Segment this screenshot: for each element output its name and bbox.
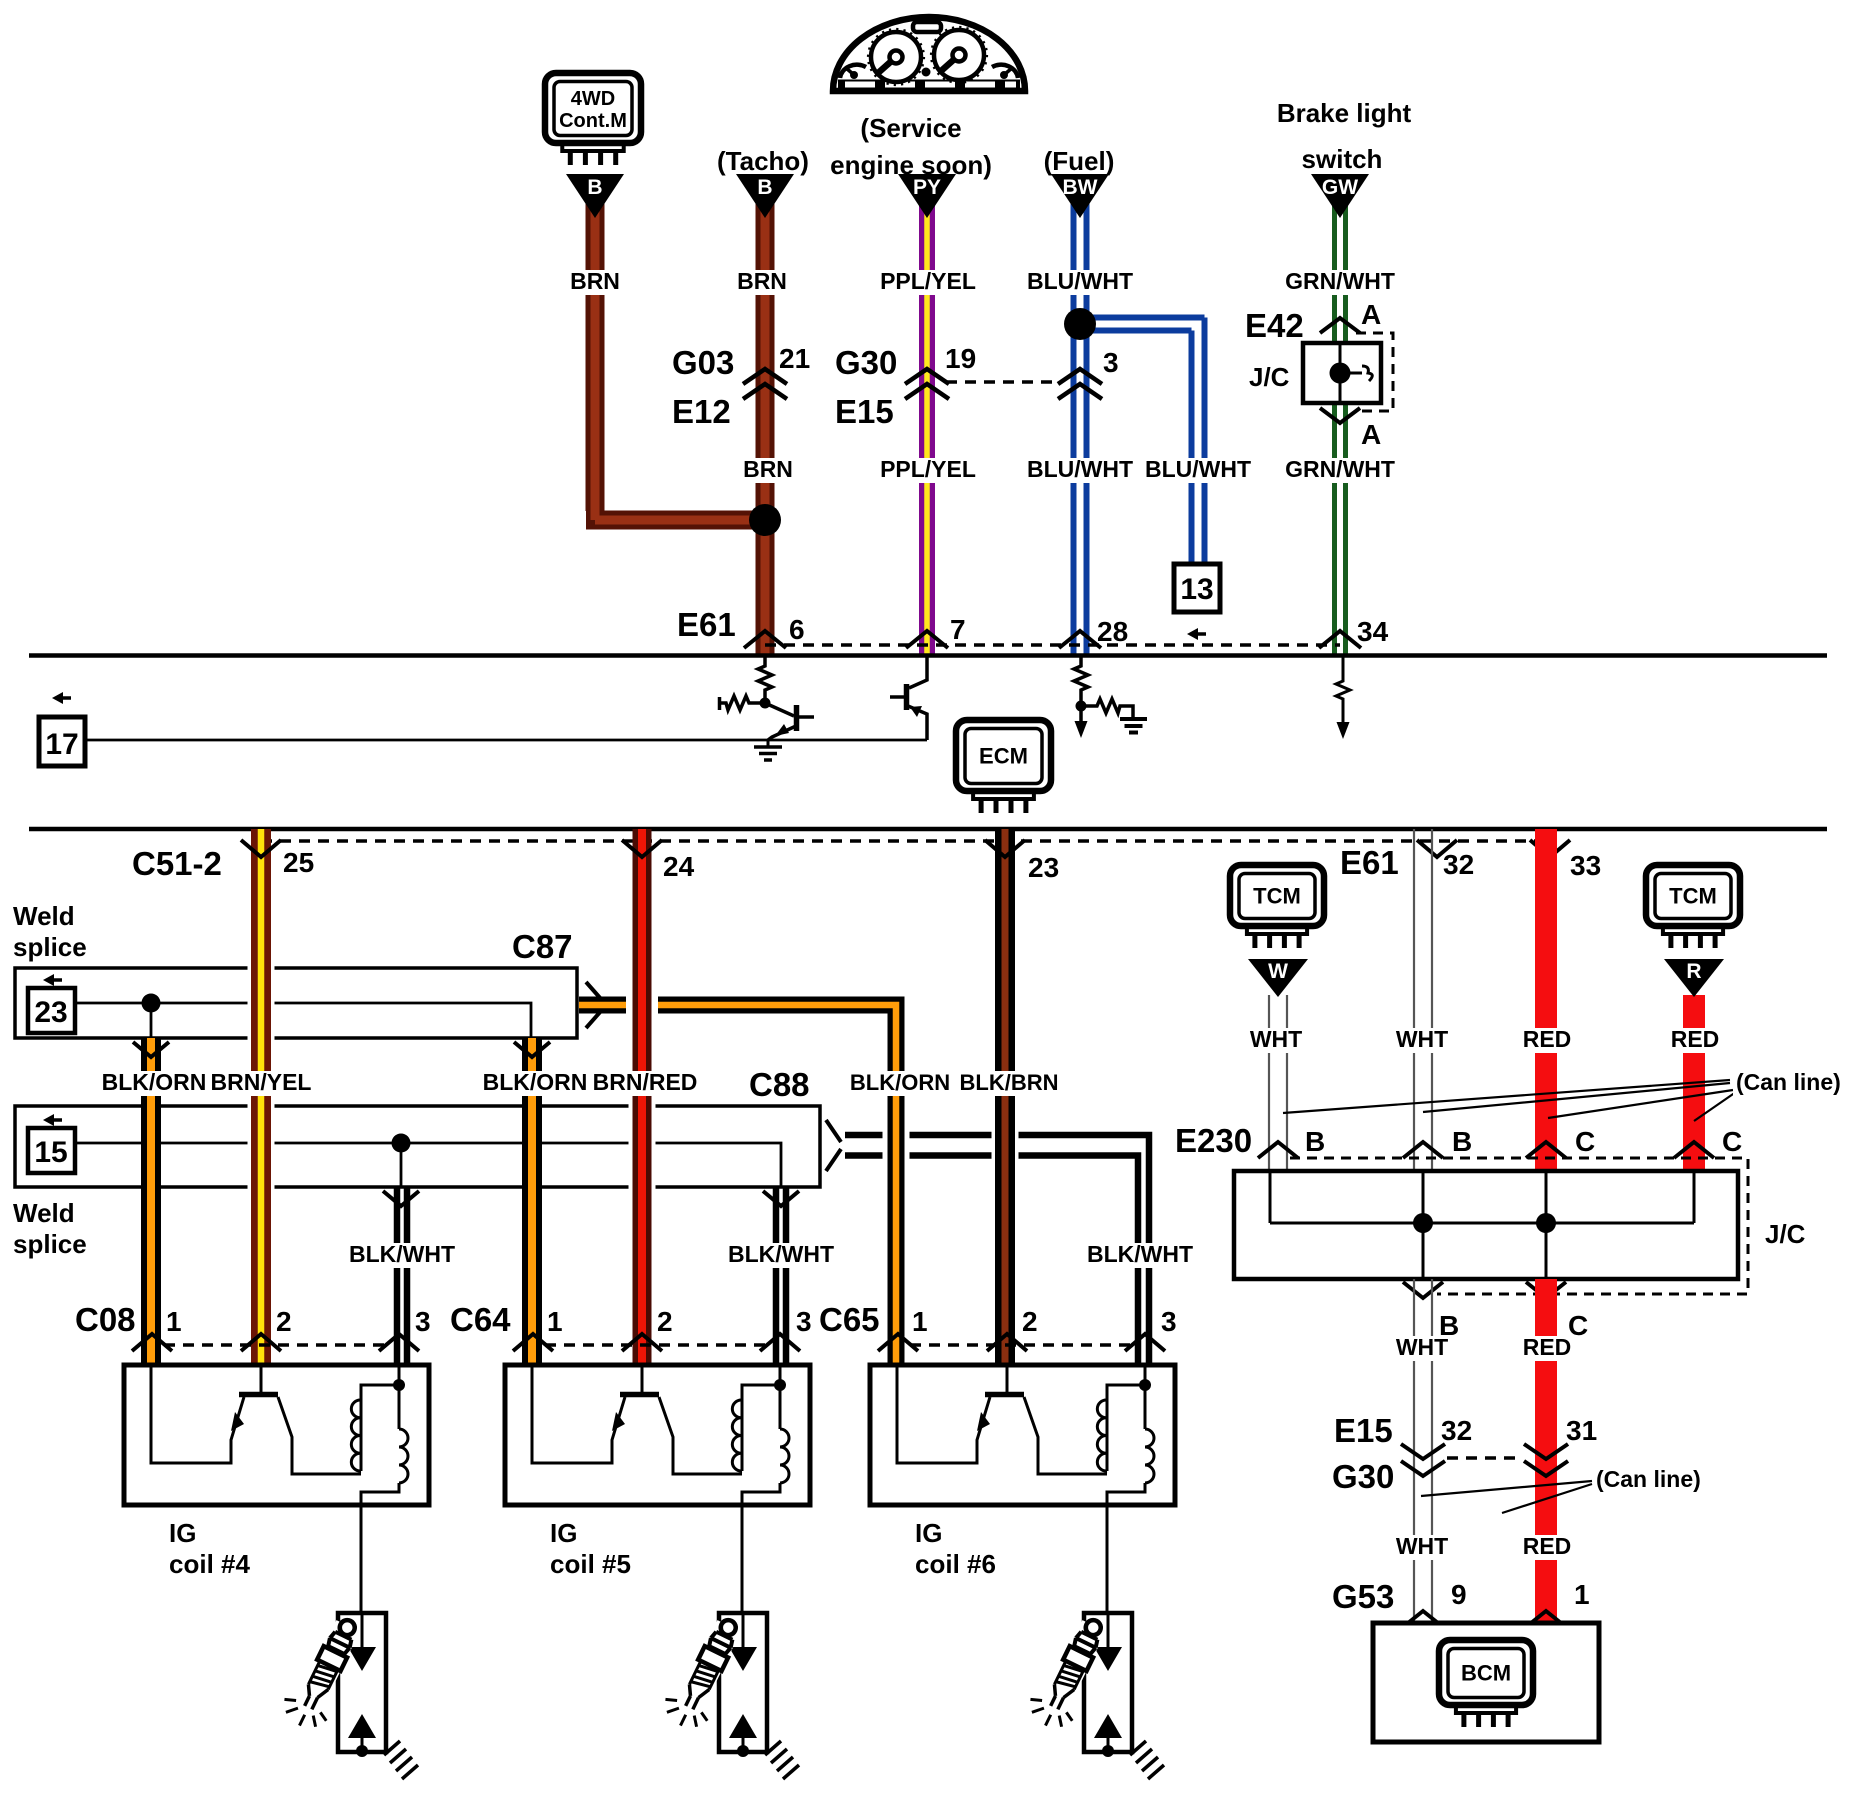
svg-text:1: 1 xyxy=(547,1306,563,1337)
chevron C65 pin 3 xyxy=(1125,1334,1165,1351)
svg-text:E61: E61 xyxy=(1340,844,1399,881)
chevron C64 pin 3 xyxy=(760,1334,800,1351)
wire label BRN row2 xyxy=(739,458,797,483)
svg-text:PPL/YEL: PPL/YEL xyxy=(880,268,976,294)
wire label BLU/WHT branch xyxy=(1145,458,1251,483)
splice chevron under C87 (x532) xyxy=(514,1042,550,1057)
svg-text:C51-2: C51-2 xyxy=(132,845,222,882)
svg-text:BRN/RED: BRN/RED xyxy=(593,1069,698,1095)
wire label BLK/WHT (C65.3) xyxy=(1085,1243,1195,1268)
svg-text:BLK/ORN: BLK/ORN xyxy=(850,1070,950,1095)
svg-text:G53: G53 xyxy=(1332,1578,1394,1615)
svg-text:BLK/WHT: BLK/WHT xyxy=(349,1241,455,1267)
svg-text:1: 1 xyxy=(166,1306,182,1337)
svg-text:B: B xyxy=(1452,1126,1472,1157)
wire from box 17 to Q2 emitter xyxy=(85,739,927,742)
connector triangle B (Tacho) xyxy=(736,174,794,218)
chevron E61 pin 34 xyxy=(1319,631,1361,648)
wire BLK/ORN (C87 to C65 pin 1, corner) xyxy=(658,1005,896,1364)
svg-text:W: W xyxy=(1268,960,1288,983)
resistor + ground at E61 pin 28 xyxy=(1074,657,1088,706)
svg-text:E230: E230 xyxy=(1175,1122,1252,1159)
svg-text:B: B xyxy=(587,176,602,199)
ground (pin 28) xyxy=(1120,719,1147,733)
spark plug #5 xyxy=(658,1610,799,1779)
svg-text:C65: C65 xyxy=(819,1301,880,1338)
connector chevron at C88 exit xyxy=(826,1120,841,1171)
chevron C51-2/E61 pin 33 xyxy=(1530,840,1570,857)
svg-text:C64: C64 xyxy=(450,1301,511,1338)
note (Can line) upper xyxy=(1283,1080,1736,1121)
svg-text:1: 1 xyxy=(912,1306,928,1337)
connector triangle B (4WD Cont.M) xyxy=(566,174,624,218)
chevron E61 pin 7 xyxy=(906,631,948,648)
svg-text:28: 28 xyxy=(1097,616,1128,647)
splice chevron under C87 (x151) xyxy=(133,1042,169,1057)
svg-text:2: 2 xyxy=(657,1306,673,1337)
svg-text:C: C xyxy=(1722,1126,1742,1157)
junction connector E230 box xyxy=(1234,1171,1738,1279)
svg-text:31: 31 xyxy=(1566,1415,1597,1446)
chevron E230 pin B (x1423) xyxy=(1403,1142,1443,1158)
wire label RED lower2 xyxy=(1520,1535,1574,1560)
wire RED (E230 to BCM) xyxy=(1535,1279,1557,1623)
wire label RED (x1546) xyxy=(1520,1028,1574,1053)
chevron E61 pin 28 xyxy=(1059,631,1101,648)
arrow above box 23 xyxy=(50,978,62,982)
svg-text:WHT: WHT xyxy=(1396,1533,1448,1559)
wire WHT (E230 to BCM) xyxy=(1414,1279,1432,1623)
svg-text:B: B xyxy=(1305,1126,1325,1157)
chevron E230 pin C (x1546) xyxy=(1526,1142,1566,1158)
svg-text:RED: RED xyxy=(1523,1533,1572,1559)
chevron C65 pin 2 xyxy=(987,1334,1027,1351)
E230 dashed outline xyxy=(1290,1158,1748,1294)
chevron C64 pin 1 xyxy=(513,1334,553,1351)
junction dot BRN xyxy=(749,504,781,536)
resistor + arrow at E61 pin 34 xyxy=(1336,657,1350,723)
wire label BLK/ORN (C65.1) xyxy=(855,1071,949,1096)
wire WHT (E61 pin 32 to E230 pin B) xyxy=(1414,829,1432,1171)
wire BLK/ORN (weld splice 23 to C08 pin 1) xyxy=(141,1038,161,1364)
C88 inner wire xyxy=(75,1143,781,1187)
svg-text:R: R xyxy=(1686,960,1701,983)
connector C88 box xyxy=(15,1106,820,1187)
transistor Q2 (SES lamp driver) xyxy=(909,657,927,688)
svg-text:splice: splice xyxy=(13,1229,87,1259)
IG coil #4 box xyxy=(124,1365,429,1505)
wire label WHT (x1423) xyxy=(1392,1028,1452,1053)
svg-text:(Can line): (Can line) xyxy=(1736,1069,1841,1095)
node dot Q1 xyxy=(760,698,771,709)
wire label RED (x1694) xyxy=(1668,1028,1722,1053)
wire BLU/WHT (Fuel) down to bus E61 pin 28 xyxy=(1071,203,1077,655)
wire label BLU/WHT row2 xyxy=(1027,458,1133,483)
svg-text:BLK/BRN: BLK/BRN xyxy=(960,1070,1059,1095)
chevron C08 pin 3 xyxy=(379,1334,419,1351)
wire label BLK/ORN (C64.1) xyxy=(482,1071,588,1096)
wire BLK/ORN horizontal from C87 to C65 pin 1 xyxy=(579,997,626,1014)
svg-text:J/C: J/C xyxy=(1249,362,1290,392)
svg-text:GW: GW xyxy=(1322,176,1358,199)
svg-text:IG: IG xyxy=(550,1518,577,1548)
wire BLK/WHT horizontal from C88 to C65 pin 3 xyxy=(845,1135,1149,1364)
svg-text:G03: G03 xyxy=(672,344,734,381)
svg-text:BLK/WHT: BLK/WHT xyxy=(728,1241,834,1267)
wire label WHT (x1278) xyxy=(1246,1028,1306,1053)
wire coil #5 to spark plug xyxy=(741,1505,744,1613)
svg-text:23: 23 xyxy=(34,996,67,1029)
svg-text:J/C: J/C xyxy=(1765,1219,1806,1249)
junction dot BLU/WHT xyxy=(1064,308,1096,340)
svg-text:BRN: BRN xyxy=(737,268,787,294)
svg-text:24: 24 xyxy=(663,851,695,882)
double chevron G30/E15 pin 19 xyxy=(905,369,949,399)
svg-text:RED: RED xyxy=(1671,1026,1720,1052)
svg-text:coil #6: coil #6 xyxy=(915,1549,996,1579)
svg-text:switch: switch xyxy=(1302,144,1383,174)
splice chevron under C88 (x781) xyxy=(763,1191,799,1206)
wire RED (TCM R to E230 pin C) xyxy=(1683,995,1705,1171)
wire label WHT lower1 xyxy=(1392,1336,1452,1361)
C51-2 bus dashed line xyxy=(261,839,1550,843)
svg-text:4WD: 4WD xyxy=(571,88,615,110)
wire label BLK/WHT (C64.3) xyxy=(726,1243,836,1268)
svg-text:3: 3 xyxy=(1161,1306,1177,1337)
svg-text:25: 25 xyxy=(283,847,314,878)
svg-text:TCM: TCM xyxy=(1669,884,1717,909)
wire label RED lower1 xyxy=(1520,1336,1574,1361)
connector triangle GW xyxy=(1311,174,1369,218)
module ECM xyxy=(956,720,1051,791)
chevron C64 pin 2 xyxy=(622,1334,662,1351)
svg-text:Weld: Weld xyxy=(13,901,75,931)
svg-text:(Service: (Service xyxy=(860,113,961,143)
svg-text:(Fuel): (Fuel) xyxy=(1044,146,1115,176)
svg-text:33: 33 xyxy=(1570,850,1601,881)
svg-text:13: 13 xyxy=(1180,573,1213,606)
arrow down from pin 28 node xyxy=(1079,706,1083,722)
wire BRN/RED (C51-2 pin 24 to C64 pin 2) xyxy=(629,846,656,1364)
wire BLK/WHT (C88 to C64 pin 3) xyxy=(776,1187,786,1364)
svg-text:C: C xyxy=(1575,1126,1595,1157)
transistor Q1 xyxy=(765,703,794,716)
box 23 (weld splice) xyxy=(28,988,75,1033)
svg-text:TCM: TCM xyxy=(1253,884,1301,909)
arrow above box 17 xyxy=(59,696,71,700)
wire label BLK/BRN (C65.2) xyxy=(962,1071,1056,1096)
ground (Q1 emitter) xyxy=(767,740,770,746)
svg-text:E12: E12 xyxy=(672,393,731,430)
chevron C51-2/E61 pin 32 xyxy=(1417,840,1457,857)
wire label BRN/RED (C64.2) xyxy=(592,1071,698,1096)
chevron E42 pin A (bottom) xyxy=(1320,408,1360,423)
chevron C51-2/E61 pin 23 xyxy=(985,840,1025,857)
svg-text:32: 32 xyxy=(1443,849,1474,880)
chevron C08 pin 1 xyxy=(132,1334,172,1351)
chevron C08 pin 2 xyxy=(241,1334,281,1351)
wire coil #4 to spark plug xyxy=(360,1505,363,1613)
wire PPL/YEL down to bus E61 pin 7 xyxy=(919,203,935,655)
svg-text:IG: IG xyxy=(915,1518,942,1548)
chevron G53 (WHT) xyxy=(1403,1611,1443,1627)
svg-text:3: 3 xyxy=(796,1306,812,1337)
svg-text:BW: BW xyxy=(1063,176,1098,199)
wire BLK/BRN (C51-2 pin 23 to C65 pin 2) xyxy=(992,846,1019,1364)
C87 junction dot xyxy=(142,994,161,1013)
svg-text:IG: IG xyxy=(169,1518,196,1548)
svg-text:E61: E61 xyxy=(677,606,736,643)
module TCM (left) xyxy=(1230,865,1324,926)
chevron C65 pin 1 xyxy=(878,1334,918,1351)
svg-text:2: 2 xyxy=(1022,1306,1038,1337)
svg-text:BRN/YEL: BRN/YEL xyxy=(211,1069,312,1095)
chevron E61 pin 6 xyxy=(744,631,786,648)
svg-text:RED: RED xyxy=(1523,1334,1572,1360)
junction connector E42 dashed outline xyxy=(1356,333,1393,411)
arrow above box 15 xyxy=(50,1118,62,1122)
module BCM icon xyxy=(1439,1640,1533,1705)
E61 bus line xyxy=(29,653,1827,658)
spark plug #6 xyxy=(1023,1610,1164,1779)
chevron below E230 pin C xyxy=(1526,1282,1566,1298)
wire GRN/WHT down to bus E61 pin 34 xyxy=(1332,203,1337,343)
wire BLK/ORN (C87 to C64 pin 1) xyxy=(522,1038,542,1364)
svg-text:9: 9 xyxy=(1451,1579,1467,1610)
IG coil #5 box xyxy=(505,1365,810,1505)
chevron G53 (RED) xyxy=(1526,1611,1566,1627)
svg-text:21: 21 xyxy=(779,343,810,374)
wire BRN (Tacho) down to bus E61 pin 6 xyxy=(756,203,775,655)
wire RED (E61 pin 33 to E230 pin C) xyxy=(1535,829,1557,1171)
wire label PPL/YEL xyxy=(879,270,977,295)
svg-text:BLU/WHT: BLU/WHT xyxy=(1027,456,1133,482)
E230 junction dot C xyxy=(1536,1213,1556,1233)
connector C65 dashed line xyxy=(910,1343,1133,1347)
svg-text:BCM: BCM xyxy=(1461,1661,1511,1686)
junction connector E42 J/C box xyxy=(1303,343,1381,403)
svg-text:BLK/WHT: BLK/WHT xyxy=(1087,1241,1193,1267)
wire label PPL/YEL row2 xyxy=(879,458,977,483)
svg-text:BLU/WHT: BLU/WHT xyxy=(1145,456,1251,482)
svg-text:G30: G30 xyxy=(1332,1458,1394,1495)
connector triangle W xyxy=(1248,959,1308,997)
connector triangle R xyxy=(1664,959,1724,997)
splice chevron under C88 (x401) xyxy=(383,1191,419,1206)
svg-text:17: 17 xyxy=(45,728,78,761)
wire BLU/WHT branch to box 13 xyxy=(1080,318,1205,331)
svg-text:E15: E15 xyxy=(835,393,894,430)
svg-text:PPL/YEL: PPL/YEL xyxy=(880,456,976,482)
double chevron E15/G30 (RED) xyxy=(1524,1444,1568,1476)
wire label BRN/YEL (C08.2) xyxy=(208,1071,314,1096)
wire label BRN (4WD) xyxy=(566,270,624,295)
wire label WHT lower2 xyxy=(1392,1535,1452,1560)
wire label BLK/ORN (C08.1) xyxy=(101,1071,207,1096)
svg-text:3: 3 xyxy=(1103,347,1119,378)
svg-text:Weld: Weld xyxy=(13,1198,75,1228)
wire label BRN (Tacho) xyxy=(733,270,791,295)
module BCM outer box xyxy=(1373,1623,1599,1742)
IG coil #6 box xyxy=(870,1365,1175,1505)
svg-text:32: 32 xyxy=(1441,1415,1472,1446)
svg-text:splice: splice xyxy=(13,932,87,962)
E230 junction dot B xyxy=(1413,1213,1433,1233)
svg-text:1: 1 xyxy=(1574,1579,1590,1610)
svg-text:GRN/WHT: GRN/WHT xyxy=(1285,456,1395,482)
C51-2 bus line xyxy=(29,827,1827,832)
box 17 xyxy=(39,717,85,766)
svg-text:E42: E42 xyxy=(1245,307,1304,344)
connector triangle PY xyxy=(898,174,956,218)
connector chevron at C87 exit xyxy=(586,982,601,1028)
svg-text:Brake light: Brake light xyxy=(1277,98,1412,128)
note (Can line) lower xyxy=(1421,1481,1592,1513)
svg-text:RED: RED xyxy=(1523,1026,1572,1052)
dashed line G53 xyxy=(1447,1625,1522,1629)
svg-text:BLU/WHT: BLU/WHT xyxy=(1027,268,1133,294)
transistor Q1 (tacho driver) resistor xyxy=(758,657,772,703)
svg-text:WHT: WHT xyxy=(1250,1026,1302,1052)
svg-text:WHT: WHT xyxy=(1396,1026,1448,1052)
svg-text:BLK/ORN: BLK/ORN xyxy=(102,1069,207,1095)
svg-text:BRN: BRN xyxy=(743,456,793,482)
chevron below E230 pin B xyxy=(1403,1282,1443,1298)
svg-text:C87: C87 xyxy=(512,928,573,965)
svg-text:3: 3 xyxy=(415,1306,431,1337)
double chevron E15/G30 (WHT) xyxy=(1401,1444,1445,1476)
svg-text:G30: G30 xyxy=(835,344,897,381)
wire BRN/YEL (C51-2 pin 25 to C08 pin 2) xyxy=(248,846,275,1364)
svg-text:BLK/ORN: BLK/ORN xyxy=(483,1069,588,1095)
svg-text:2: 2 xyxy=(276,1306,292,1337)
svg-text:6: 6 xyxy=(789,614,805,645)
chevron C51-2/E61 pin 24 xyxy=(622,840,662,857)
connector C64 dashed line xyxy=(545,1343,768,1347)
wire label GRN/WHT xyxy=(1285,270,1395,295)
svg-text:B: B xyxy=(757,176,772,199)
wire label BLU/WHT xyxy=(1027,270,1133,295)
chevron E230 pin B (x1278) xyxy=(1258,1142,1298,1158)
svg-text:34: 34 xyxy=(1357,616,1389,647)
double chevron pin 3 (Fuel) xyxy=(1058,369,1102,399)
box 15 (weld splice) xyxy=(28,1128,75,1173)
wire label GRN/WHT row2 xyxy=(1285,458,1395,483)
svg-text:(Can line): (Can line) xyxy=(1596,1466,1701,1492)
svg-text:BRN: BRN xyxy=(570,268,620,294)
svg-text:C08: C08 xyxy=(75,1301,136,1338)
svg-text:15: 15 xyxy=(34,1136,67,1169)
dashed line E15/G30 xyxy=(1447,1456,1522,1460)
svg-text:ECM: ECM xyxy=(979,744,1028,769)
box 13 xyxy=(1174,564,1220,612)
connector C87 box xyxy=(15,968,577,1038)
svg-text:A: A xyxy=(1361,299,1381,330)
chevron E42 pin A (top) xyxy=(1320,318,1360,333)
svg-text:coil #5: coil #5 xyxy=(550,1549,631,1579)
svg-text:Cont.M: Cont.M xyxy=(559,110,627,132)
svg-text:E15: E15 xyxy=(1334,1412,1393,1449)
wire BLK/WHT (weld splice 15 to C08 pin 3) xyxy=(397,1187,407,1364)
svg-text:(Tacho): (Tacho) xyxy=(717,146,809,176)
wire WHT (TCM W to E230 pin B) xyxy=(1269,995,1287,1171)
E61 bus dashed line xyxy=(765,643,1340,647)
connector C08 dashed line xyxy=(164,1343,387,1347)
wire coil #6 to spark plug xyxy=(1106,1505,1109,1613)
C88 junction dot xyxy=(392,1134,411,1153)
module 4WD Cont.M xyxy=(545,73,641,143)
double chevron G03/E12 pin 21 xyxy=(743,369,787,399)
svg-text:PY: PY xyxy=(913,176,941,199)
svg-text:A: A xyxy=(1361,419,1381,450)
C87 inner wire xyxy=(75,1003,531,1038)
svg-text:coil #4: coil #4 xyxy=(169,1549,250,1579)
instrument cluster icon xyxy=(833,17,1025,91)
wire label BLK/WHT (C08.3) xyxy=(347,1243,457,1268)
arrow below box 13 xyxy=(1194,632,1206,636)
E42 internal junction dot xyxy=(1330,363,1351,384)
svg-text:19: 19 xyxy=(945,343,976,374)
dashed connector line G30/E15 to pin 3 xyxy=(946,380,1060,384)
svg-text:WHT: WHT xyxy=(1396,1334,1448,1360)
connector triangle BW xyxy=(1051,174,1109,218)
svg-text:23: 23 xyxy=(1028,852,1059,883)
chevron C51-2/E61 pin 25 xyxy=(241,840,281,857)
svg-text:GRN/WHT: GRN/WHT xyxy=(1285,268,1395,294)
svg-text:7: 7 xyxy=(950,614,966,645)
resistor to base terminal (left) xyxy=(720,696,766,710)
svg-text:C88: C88 xyxy=(749,1066,810,1103)
spark plug #4 xyxy=(277,1610,418,1779)
module TCM (right) xyxy=(1646,865,1740,926)
chevron E230 pin C (x1694) xyxy=(1674,1142,1714,1158)
